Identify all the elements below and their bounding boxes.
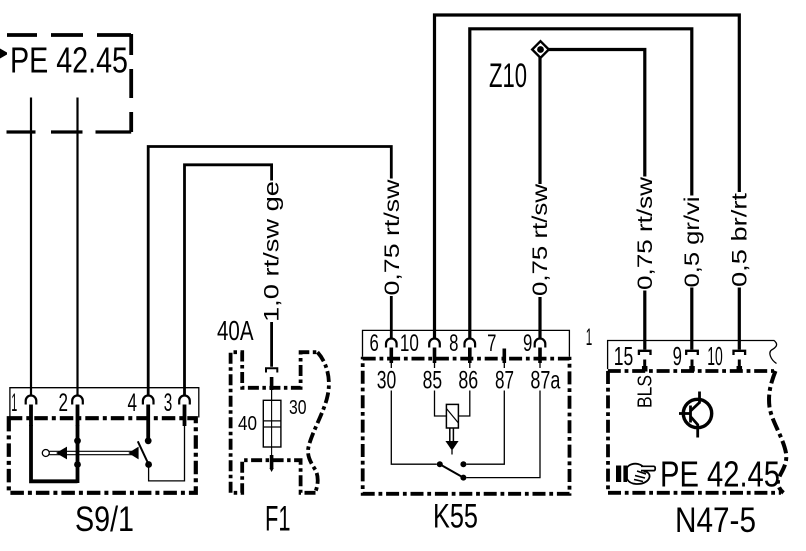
- junction dot pin2 lower: [74, 461, 81, 468]
- switch S9/1 box: [9, 418, 196, 493]
- wire K55 pin 10 to N47-5 pin 10: [435, 15, 740, 350]
- fuse F1 body: [263, 400, 281, 447]
- wire 87a internal: [466, 360, 540, 478]
- wire S9/1 pin2 internal: [76, 425, 80, 483]
- svg-text:0,75 rt/sw: 0,75 rt/sw: [634, 176, 657, 290]
- pin 4 stub: [146, 405, 150, 442]
- fuse box F1 outline bottom: [231, 460, 316, 493]
- svg-text:0,75 rt/sw: 0,75 rt/sw: [381, 178, 404, 295]
- pin 10 socket arc: [429, 339, 440, 348]
- svg-text:4: 4: [127, 389, 137, 417]
- pin 6 socket arc: [386, 338, 397, 347]
- switch actuator circle: [42, 450, 49, 457]
- svg-text:3: 3: [164, 389, 173, 417]
- wire K55 pin 8 to N47-5 pin 9: [470, 29, 692, 350]
- pin 2 socket arc: [72, 396, 83, 405]
- svg-text:9: 9: [523, 330, 532, 357]
- pin 2 stub: [76, 405, 80, 427]
- svg-text:S9/1: S9/1: [75, 500, 134, 539]
- wire node Z10 to N47-5 pin 15: [546, 50, 645, 350]
- pin 8 stub: [468, 348, 472, 364]
- svg-text:0,75 rt/sw: 0,75 rt/sw: [529, 183, 552, 296]
- svg-text:7: 7: [487, 330, 496, 357]
- relay K55 box: [363, 359, 570, 494]
- svg-text:15: 15: [614, 341, 634, 371]
- fuse box F1 outline left/top: [231, 352, 318, 493]
- svg-text:87a: 87a: [530, 367, 560, 395]
- svg-text:BLS: BLS: [635, 375, 657, 408]
- pin 7 stub: [502, 349, 506, 364]
- svg-text:30: 30: [377, 367, 397, 395]
- svg-text:10: 10: [400, 330, 419, 357]
- svg-text:6: 6: [370, 330, 379, 357]
- svg-text:2: 2: [58, 389, 68, 417]
- fuse box F1 wavy right edge: [308, 352, 329, 493]
- svg-text:8: 8: [449, 330, 458, 357]
- svg-text:PE 42.45: PE 42.45: [10, 40, 128, 81]
- relay plunger arrow: [445, 441, 458, 451]
- white masks for terminal labels: [375, 368, 399, 391]
- svg-text:F1: F1: [265, 500, 291, 539]
- svg-text:K55: K55: [433, 498, 478, 536]
- wire K55 pin 9 up to node Z10: [538, 56, 541, 339]
- contact dot 87: [460, 461, 466, 467]
- component PE dashed box right edge: [129, 34, 133, 132]
- wire 87 internal: [466, 360, 504, 464]
- svg-text:9: 9: [673, 341, 682, 371]
- relay plunger double line: [450, 428, 454, 441]
- pin 3 stub: [183, 405, 187, 427]
- svg-text:87: 87: [495, 367, 514, 395]
- svg-text:0,5 br/rt: 0,5 br/rt: [728, 193, 751, 287]
- wire 85 internal: [435, 360, 447, 416]
- wire from PE box to S9/1 pin 2: [76, 98, 78, 396]
- wire S9/1 pin3 internal: [149, 426, 185, 481]
- control unit N47-5 box: [608, 369, 774, 373]
- F1 pin stub top: [270, 377, 274, 390]
- svg-text:85: 85: [423, 367, 443, 395]
- pin 3 socket arc: [179, 396, 190, 405]
- node Z10: [532, 41, 549, 58]
- switch actuator link double line: [49, 451, 136, 454]
- transistor symbol: [683, 399, 711, 427]
- pin 4 socket arc: [143, 396, 154, 405]
- wire into fuse: [271, 390, 273, 400]
- connector into F1: [266, 368, 277, 372]
- junction dot pin4: [145, 437, 152, 444]
- svg-text:1: 1: [11, 389, 17, 417]
- junction dot pin2 upper: [74, 437, 81, 444]
- pin 1 socket arc: [26, 395, 37, 404]
- svg-text:Z10: Z10: [489, 57, 527, 95]
- pin 10 socket: [734, 351, 746, 355]
- svg-text:N47-5: N47-5: [675, 501, 756, 540]
- actuator arrow right: [128, 447, 138, 460]
- F1 pin stub bottom: [270, 455, 274, 469]
- wire S9/1 pin 3 to fuse F1: [185, 165, 272, 396]
- svg-text:40A: 40A: [217, 315, 254, 346]
- contact dot 87a: [460, 475, 466, 481]
- connector strip N47-5: [608, 341, 777, 370]
- junction dot pin3 contact: [145, 461, 152, 468]
- actuator arrow left: [56, 447, 67, 460]
- svg-text:30: 30: [289, 397, 307, 419]
- hand icon (N47-5): [616, 464, 655, 484]
- wire from PE box to S9/1 pin 1: [30, 98, 32, 396]
- wire 30 internal: [391, 360, 437, 464]
- pin 8 socket arc: [465, 338, 476, 347]
- pin 9 socket arc: [535, 339, 546, 348]
- component PE dashed box top edge: [7, 33, 131, 37]
- svg-text:1: 1: [586, 324, 593, 351]
- switch blade: [138, 441, 149, 464]
- svg-text:1,0 rt/sw ge: 1,0 rt/sw ge: [261, 181, 284, 322]
- svg-text:10: 10: [707, 341, 723, 371]
- connector strip S9/1: [10, 388, 199, 418]
- contact dot 30: [437, 461, 443, 467]
- wire S9/1 pin 4 to K55 pin 6: [148, 147, 391, 396]
- pin 9 socket: [686, 351, 698, 355]
- svg-text:0,5 gr/vi: 0,5 gr/vi: [681, 197, 704, 288]
- component PE dashed box bottom edge: [7, 130, 132, 133]
- pin 9 stub: [538, 348, 542, 364]
- wire below fuse: [271, 447, 273, 456]
- connector strip K55: [363, 330, 570, 356]
- hand icon small (top-left): [0, 49, 7, 59]
- pin 6 stub: [389, 348, 393, 364]
- pin 15 socket: [639, 351, 651, 355]
- relay switch blade: [440, 464, 464, 477]
- relay coil K55: [446, 404, 458, 428]
- pin 1 stub: [29, 405, 33, 427]
- pin 10 stub: [433, 348, 437, 364]
- svg-text:86: 86: [458, 367, 478, 395]
- wire 86 internal: [458, 360, 469, 416]
- svg-text:40: 40: [238, 413, 257, 435]
- wire S9/1 pin1 internal: [31, 425, 78, 481]
- svg-text:PE 42.45: PE 42.45: [660, 454, 780, 495]
